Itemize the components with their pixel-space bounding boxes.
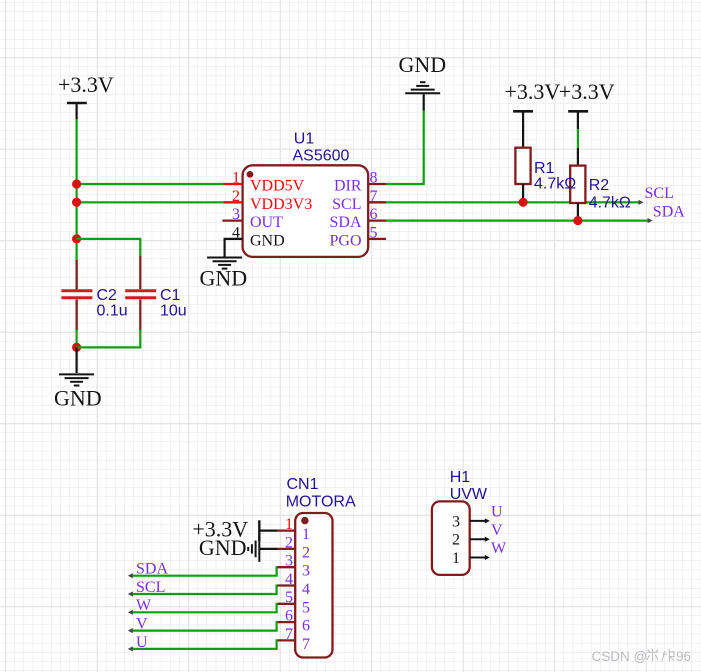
junction dot rail pin2 row bbox=[72, 198, 81, 207]
chip U1 AS5600 bbox=[243, 165, 369, 257]
svg-text:R2: R2 bbox=[589, 177, 610, 194]
resistor R2 bbox=[570, 148, 585, 221]
svg-text:1: 1 bbox=[302, 526, 310, 543]
svg-text:VDD5V: VDD5V bbox=[250, 178, 305, 195]
svg-text:3: 3 bbox=[232, 206, 240, 223]
svg-text:U: U bbox=[491, 504, 503, 521]
pin 1 stub U1 bbox=[224, 183, 243, 185]
capacitor C2 bbox=[61, 260, 92, 330]
svg-text:0.1u: 0.1u bbox=[97, 303, 128, 320]
pin 2 stub CN1 bbox=[278, 548, 296, 550]
wire W to CN1 pin5 bbox=[128, 604, 278, 615]
svg-text:3: 3 bbox=[452, 513, 460, 530]
svg-text:+3.3V: +3.3V bbox=[58, 72, 114, 97]
svg-text:7: 7 bbox=[302, 636, 310, 653]
svg-text:SCL: SCL bbox=[645, 185, 674, 202]
resistor R1 bbox=[515, 148, 530, 203]
wire SDA to CN1 pin3 bbox=[128, 567, 278, 578]
svg-text:4: 4 bbox=[285, 571, 293, 588]
svg-text:GND: GND bbox=[200, 266, 248, 291]
pin 7 stub U1 bbox=[368, 201, 386, 203]
pin 2 stub H1 with arrow bbox=[470, 537, 490, 542]
svg-text:GND: GND bbox=[399, 52, 447, 77]
svg-text:GND: GND bbox=[54, 386, 102, 411]
svg-text:OUT: OUT bbox=[250, 214, 283, 231]
label C2 value bbox=[97, 287, 128, 320]
wire R2 top bbox=[577, 129, 579, 148]
pin 3 stub CN1 bbox=[278, 566, 296, 568]
power flag +3.3V at CN1 pin1 bbox=[192, 517, 277, 542]
svg-text:U1: U1 bbox=[294, 131, 315, 148]
svg-text:W: W bbox=[491, 540, 507, 557]
svg-text:GND: GND bbox=[250, 232, 285, 249]
svg-text:C2: C2 bbox=[97, 287, 118, 304]
svg-text:4: 4 bbox=[302, 581, 310, 598]
pin 5 stub CN1 bbox=[278, 603, 296, 605]
wire DIR to top ground bbox=[386, 111, 424, 185]
junction dot rail pin1 row bbox=[72, 179, 81, 188]
svg-text:1: 1 bbox=[232, 170, 240, 187]
svg-text:6: 6 bbox=[285, 608, 293, 625]
connector CN1 body bbox=[295, 513, 332, 658]
svg-text:1: 1 bbox=[285, 516, 293, 533]
ground symbol top (inverted) bbox=[405, 82, 440, 93]
pin 8 stub U1 bbox=[368, 183, 386, 185]
wire U to CN1 pin7 bbox=[128, 640, 278, 651]
svg-text:10u: 10u bbox=[160, 303, 187, 320]
svg-text:CN1: CN1 bbox=[287, 476, 319, 493]
CN1 inside pin numbers bbox=[302, 526, 310, 653]
svg-text:2: 2 bbox=[302, 544, 310, 561]
power flag +3.3V (main rail) bbox=[58, 72, 114, 119]
svg-text:CSDN @: CSDN @ bbox=[592, 649, 648, 664]
svg-text:MOTORA: MOTORA bbox=[286, 493, 356, 510]
svg-text:+3.3V: +3.3V bbox=[559, 79, 615, 104]
arrow SDA net end bbox=[648, 218, 653, 223]
wire cap branch top bbox=[77, 239, 141, 256]
junction dot R1/SCL bbox=[519, 198, 528, 207]
wire rail to U1 pin2 bbox=[77, 201, 224, 203]
svg-text:2: 2 bbox=[285, 534, 293, 551]
svg-text:6: 6 bbox=[302, 618, 310, 635]
wire SDA net bbox=[386, 220, 650, 222]
pin 7 stub CN1 bbox=[278, 639, 296, 641]
svg-text:DIR: DIR bbox=[334, 178, 362, 195]
pin 3 stub H1 with arrow bbox=[470, 518, 490, 523]
svg-text:5: 5 bbox=[285, 589, 293, 606]
svg-text:R1: R1 bbox=[534, 160, 555, 177]
H1 inside pin numbers bbox=[452, 513, 460, 567]
capacitor C1 bbox=[125, 256, 156, 330]
svg-text:SDA: SDA bbox=[329, 214, 361, 231]
wire main +3.3V vertical rail bbox=[75, 119, 77, 347]
svg-text:2: 2 bbox=[232, 188, 240, 205]
svg-text:7: 7 bbox=[285, 626, 293, 643]
svg-text:3: 3 bbox=[302, 563, 310, 580]
arrow SCL net end bbox=[639, 200, 644, 205]
junction dot rail caps bottom bbox=[72, 343, 81, 352]
svg-text:GND: GND bbox=[199, 535, 247, 560]
svg-text:96: 96 bbox=[676, 649, 691, 664]
junction dot R2/SDA bbox=[573, 216, 582, 225]
svg-text:+3.3V: +3.3V bbox=[505, 79, 561, 104]
power flag +3.3V at R1 bbox=[505, 79, 561, 148]
svg-text:5: 5 bbox=[302, 599, 310, 616]
wire stub top ground bbox=[423, 94, 425, 110]
svg-text:3: 3 bbox=[285, 553, 293, 570]
svg-text:SDA: SDA bbox=[653, 204, 685, 221]
ground symbol bottom-left bbox=[59, 374, 94, 385]
svg-text:AS5600: AS5600 bbox=[293, 148, 350, 165]
junction dot rail caps top bbox=[72, 234, 81, 243]
svg-text:4.7kΩ: 4.7kΩ bbox=[589, 195, 631, 212]
svg-text:PGO: PGO bbox=[329, 232, 361, 249]
pin 5 stub U1 bbox=[368, 238, 386, 240]
pin 4 stub CN1 bbox=[278, 584, 296, 586]
ground symbol at U1 pin4 bbox=[207, 258, 242, 269]
pin 1 stub H1 with arrow bbox=[470, 555, 490, 560]
svg-text:V: V bbox=[491, 522, 503, 539]
ground symbol at CN1 pin2 (rotated) bbox=[199, 535, 278, 562]
wire rail to U1 pin1 bbox=[77, 183, 224, 185]
wire cap branch bottom bbox=[77, 330, 141, 347]
pin 3 stub U1 bbox=[222, 219, 242, 221]
wire SCL to CN1 pin4 bbox=[128, 586, 278, 597]
svg-text:H1: H1 bbox=[450, 469, 471, 486]
svg-text:C1: C1 bbox=[160, 287, 181, 304]
wire to bottom-left ground bbox=[75, 347, 77, 373]
svg-text:VDD3V3: VDD3V3 bbox=[250, 196, 312, 213]
CN1 outside pin numbers bbox=[285, 516, 293, 643]
svg-text:1: 1 bbox=[452, 550, 460, 567]
power flag +3.3V at R2 bbox=[559, 79, 615, 129]
pin1 marker dot U1 bbox=[247, 171, 254, 178]
wire U1 pin4 to ground bbox=[225, 239, 243, 257]
pin 1 stub CN1 bbox=[278, 529, 296, 531]
pin 6 stub CN1 bbox=[278, 621, 296, 623]
wire SCL net bbox=[386, 201, 641, 203]
pin 6 stub U1 bbox=[368, 219, 386, 221]
pin 2 stub U1 bbox=[224, 201, 243, 203]
pin1 marker dot CN1 bbox=[301, 517, 308, 524]
label C1 value bbox=[160, 287, 187, 320]
connector H1 body bbox=[432, 501, 470, 575]
svg-text:SCL: SCL bbox=[332, 196, 361, 213]
wire V to CN1 pin6 bbox=[128, 622, 278, 633]
svg-text:2: 2 bbox=[452, 532, 460, 549]
watermark CSDN bbox=[592, 649, 692, 665]
svg-text:4.7kΩ: 4.7kΩ bbox=[534, 176, 576, 193]
